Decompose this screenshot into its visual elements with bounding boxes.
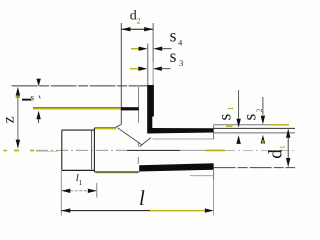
junction diagonal left xyxy=(118,128,142,145)
junction diagonal right xyxy=(140,138,151,147)
branch left outer wall xyxy=(120,23,122,125)
centerline main run xyxy=(4,149,296,152)
svg-text:3: 3 xyxy=(179,59,183,68)
yellow dash near s1 xyxy=(226,125,233,127)
run bore line right of bar xyxy=(152,138,213,140)
shoulder line yellow left xyxy=(33,106,121,108)
dimension d2 xyxy=(121,27,153,31)
dimension s3 xyxy=(130,68,139,70)
svg-text:s: s xyxy=(31,93,35,103)
dimension z xyxy=(16,87,20,96)
body bottom line xyxy=(94,171,139,173)
branch wall section bar xyxy=(147,85,154,128)
run top wall section arm xyxy=(147,128,213,134)
dimension l xyxy=(61,210,150,212)
socket depth line top-left xyxy=(12,85,148,87)
svg-text:2: 2 xyxy=(255,109,264,113)
thick shoulder section xyxy=(121,107,139,110)
bottom wall section band xyxy=(139,163,213,171)
svg-text:d: d xyxy=(265,149,286,159)
dimension s5 small xyxy=(22,99,31,101)
dimension d1 xyxy=(286,129,290,138)
spigot left outline xyxy=(62,128,95,172)
branch right extension lines xyxy=(147,44,149,86)
svg-text:4: 4 xyxy=(178,39,182,48)
svg-text:s: s xyxy=(214,114,234,121)
svg-text:s: s xyxy=(170,46,177,66)
dimension B stem (s5) xyxy=(38,79,40,81)
right pipe lines xyxy=(214,124,269,126)
dimension l1 xyxy=(60,171,62,216)
svg-text:s: s xyxy=(170,25,177,45)
dimension s1 xyxy=(238,90,240,122)
svg-text:z: z xyxy=(0,116,17,123)
svg-text:1: 1 xyxy=(79,179,83,187)
socket outer bottom lip xyxy=(190,175,214,177)
body top line xyxy=(95,127,116,129)
spigot bottom yellow tinge xyxy=(63,169,94,171)
dimension s4 xyxy=(131,48,140,50)
centerline branch xyxy=(137,87,139,164)
svg-text:1: 1 xyxy=(226,107,235,111)
svg-text:1: 1 xyxy=(278,145,287,149)
fitting end face right xyxy=(213,125,215,139)
svg-text:l: l xyxy=(139,186,145,210)
dimension s2 xyxy=(262,97,264,115)
svg-text:s: s xyxy=(240,113,260,120)
chamfer left of branch xyxy=(116,125,121,128)
svg-text:2: 2 xyxy=(137,17,141,26)
